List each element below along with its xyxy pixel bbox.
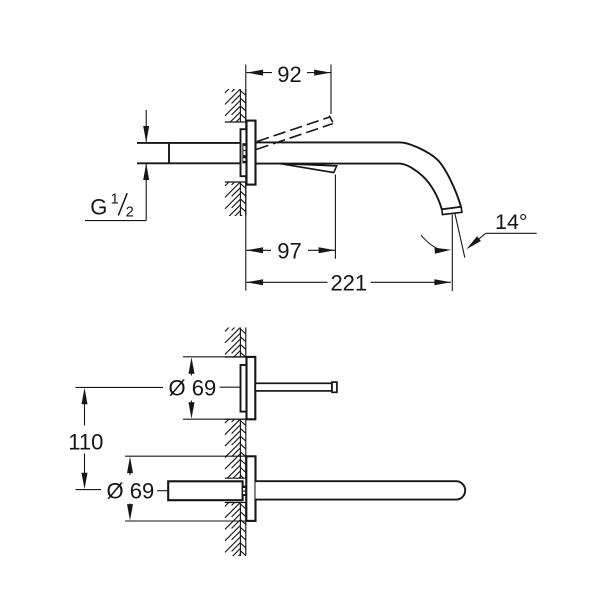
- svg-text:Ø 69: Ø 69: [169, 375, 217, 400]
- inlet pipe (G1/2 connection): [137, 142, 241, 144]
- spout in-wall shank: [168, 481, 242, 500]
- wall hole edges (bottom drawing): [225, 356, 246, 358]
- wall rosette (top drawing): [247, 121, 256, 185]
- wall hatch above spout (top drawing): [225, 77, 241, 150]
- shank thread detail: [242, 486, 246, 496]
- svg-text:221: 221: [330, 270, 367, 295]
- handle in-wall body: [241, 365, 247, 412]
- dimension 110: [76, 386, 164, 388]
- angle arc arrow: [421, 235, 446, 250]
- wall hatch upper (bottom drawing): [225, 316, 241, 378]
- wall surface / extension line (top drawing): [245, 65, 247, 291]
- svg-text:Ø 69: Ø 69: [107, 478, 155, 503]
- dimension dia 69 (handle rosette): [183, 356, 248, 358]
- handle rosette: [247, 357, 256, 419]
- spout tube: [256, 142, 461, 209]
- in-wall valve body (top drawing): [241, 129, 247, 176]
- svg-text:2: 2: [126, 205, 134, 221]
- svg-text:110: 110: [68, 429, 103, 454]
- dimension 92: [330, 65, 332, 115]
- spout rosette (bottom): [246, 456, 255, 521]
- dimension 221: [451, 215, 453, 292]
- wall hole edges (top drawing): [225, 121, 246, 123]
- dashed lever (raised position): [257, 117, 330, 141]
- wall hatch below spout (top drawing): [225, 170, 241, 243]
- thread detail marks: [242, 143, 246, 163]
- spout outlet / mousseur band: [442, 207, 462, 215]
- svg-text:97: 97: [277, 238, 301, 263]
- spout tube (front view, rounded end): [256, 481, 466, 499]
- wall hatch lower (bottom drawing): [225, 491, 241, 576]
- handle stem end cap: [332, 382, 337, 392]
- solid lever (rest position): [280, 164, 337, 173]
- svg-text:92: 92: [277, 62, 301, 87]
- angle 14 deg reference slant line: [455, 214, 465, 258]
- 14 deg leader: [486, 232, 537, 234]
- dimension 97: [334, 175, 336, 259]
- svg-text:14°: 14°: [495, 210, 528, 234]
- wall hatch middle (bottom drawing): [225, 408, 241, 504]
- svg-text:G: G: [90, 194, 107, 219]
- dimension dia 69 (spout rosette): [125, 455, 245, 457]
- handle stem: [255, 383, 332, 391]
- svg-text:1: 1: [111, 192, 119, 208]
- dimension G 1/2 leader: [145, 110, 147, 142]
